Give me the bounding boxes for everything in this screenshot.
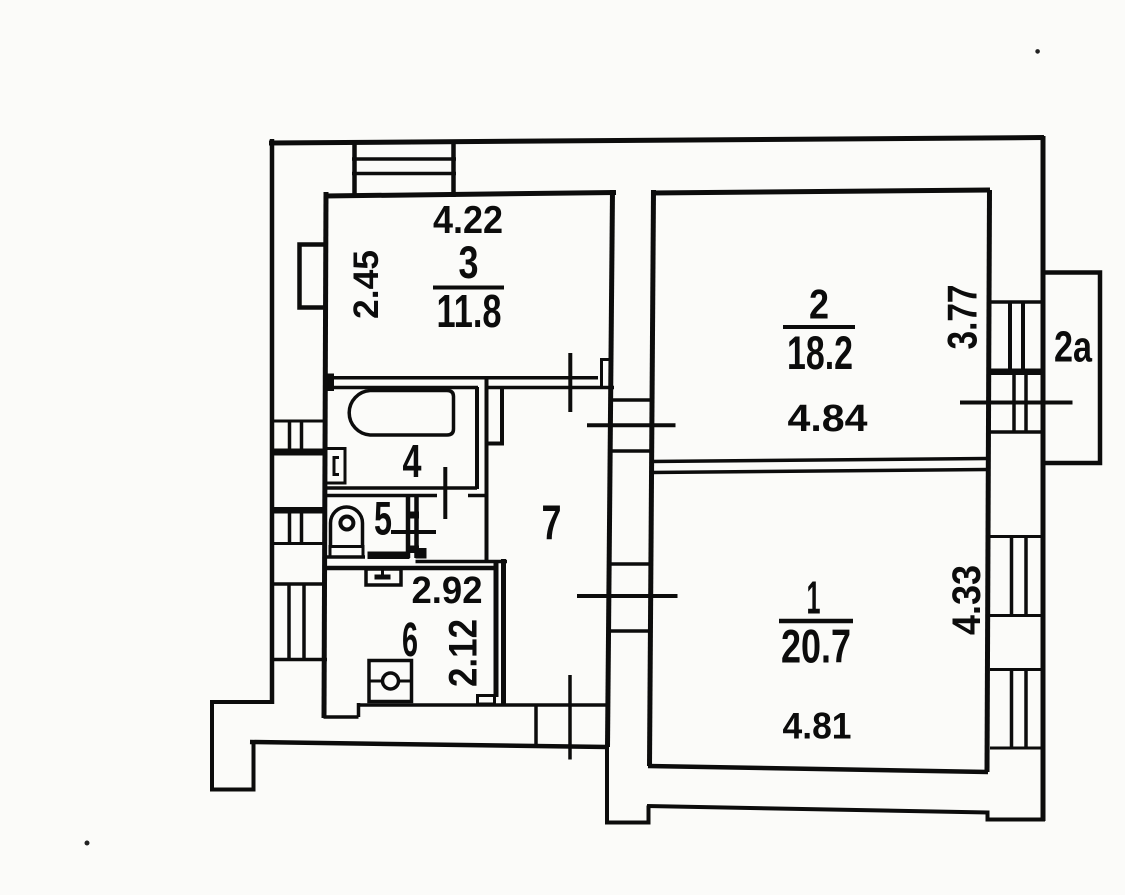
node step box room 6 SE	[478, 696, 495, 705]
window room 1 right wall upper	[990, 536, 1043, 616]
svg-text:4.33: 4.33	[945, 565, 989, 635]
tick hall-room1 door dimension	[577, 594, 678, 598]
wire door stub hall-room2 upper	[610, 398, 654, 402]
wire room 5 top wall with door gap	[324, 494, 487, 498]
wire entrance door divider	[534, 704, 538, 747]
tick hall-room2 door dimension	[587, 423, 676, 427]
wire divider rooms 2-1 upper line	[650, 459, 988, 462]
wire bottom wall lower edge right	[647, 806, 988, 813]
svg-text:2: 2	[809, 281, 829, 328]
wire room 6 top wall right part	[416, 560, 508, 564]
svg-text:2a: 2a	[1054, 323, 1092, 372]
wire door stub hall-room1 lower	[607, 629, 649, 633]
svg-text:11.8: 11.8	[437, 285, 502, 337]
svg-text:4: 4	[403, 435, 422, 487]
svg-text:1: 1	[807, 572, 821, 624]
node room 5 door block upper	[406, 512, 419, 519]
wire bottom wall lower edge left	[250, 742, 607, 747]
shaft box right of room 3	[602, 360, 614, 389]
kitchen sink room 6	[369, 661, 412, 702]
wire room 3 bottom wall upper line	[324, 376, 598, 380]
window stair box above room 3	[352, 141, 456, 197]
wire room 1 floor wall	[648, 766, 988, 772]
svg-text:5: 5	[374, 492, 392, 545]
node wall junction blob room 3 SW	[323, 374, 334, 392]
wire left exterior wall	[270, 139, 275, 704]
wire fraction line room 1	[779, 619, 853, 624]
door leaf box room 6	[366, 569, 401, 585]
svg-text:2.12: 2.12	[442, 619, 486, 687]
wire right exterior wall	[1041, 136, 1046, 821]
wire room 5 right wall	[406, 494, 411, 558]
node corner bar right of threshold	[416, 548, 427, 559]
wire door stub hall-room2 lower	[609, 449, 650, 453]
wire room 3 bottom wall lower line	[324, 386, 614, 390]
tick room 2 window dimension	[960, 401, 1073, 405]
wire bottom-left step outline	[212, 702, 274, 790]
balcony 2a outline	[1043, 273, 1100, 464]
window room 2 right wall	[990, 302, 1043, 432]
window W2 left wall	[270, 507, 327, 544]
svg-text:4.84: 4.84	[788, 398, 868, 440]
wire room 6 right wall east line	[501, 559, 506, 706]
door casing room 4 left	[326, 449, 346, 484]
wire room 5 bottom wall	[324, 555, 365, 559]
window W3 left wall	[270, 584, 327, 660]
node threshold bar below room 5	[368, 552, 410, 560]
wire room 4 right wall	[475, 387, 479, 489]
window W1 left wall	[270, 421, 327, 456]
wire room 6 right wall west line	[494, 560, 499, 697]
wire central wall east line (rooms 2,1 left wall)	[650, 190, 654, 766]
toilet room 5	[330, 507, 363, 557]
node stray dot top right	[1035, 49, 1040, 54]
svg-text:6: 6	[402, 614, 418, 667]
tick entrance door dimension	[568, 675, 572, 760]
node stray dot bottom left	[85, 841, 90, 846]
wire hall west wall upper	[485, 376, 489, 560]
wire room 4 bottom wall	[324, 486, 477, 490]
wire divider rooms 2-1 lower line	[650, 470, 988, 473]
wire central wall west line (room 3 right / hall right)	[608, 190, 613, 747]
svg-text:18.2: 18.2	[787, 326, 853, 379]
wire fraction line room 3	[433, 286, 504, 290]
svg-text:2.45: 2.45	[347, 250, 386, 319]
svg-text:20.7: 20.7	[781, 620, 851, 673]
wire room 2 top wall	[651, 190, 990, 193]
wire interior left wall (rooms 3,4,5,6)	[324, 192, 326, 718]
wire door stub hall-room1 upper	[607, 562, 649, 566]
svg-text:4.81: 4.81	[783, 706, 852, 747]
wire room 3 top wall	[324, 193, 616, 197]
wire room 5 door jamb	[414, 494, 419, 558]
window room 1 right wall lower	[990, 669, 1043, 748]
svg-text:7: 7	[542, 497, 562, 551]
svg-text:3.77: 3.77	[939, 285, 986, 350]
wire room 6 bottom-left wall	[324, 703, 359, 717]
wire bottom-right step	[988, 811, 1046, 820]
svg-text:2.92: 2.92	[412, 570, 483, 612]
svg-text:4.22: 4.22	[433, 199, 503, 242]
wire rooms 2,1 right wall	[987, 190, 990, 772]
bathtub room 4	[349, 391, 453, 436]
tick room 5 door dimension	[391, 530, 436, 534]
wire duct pocket beside hall wall	[485, 387, 502, 444]
wire entrance nib outline	[607, 746, 649, 823]
wire fraction line room 2	[783, 325, 855, 329]
wire bottom wall upper edge	[357, 703, 607, 707]
balcony outline left of room 3	[300, 245, 328, 308]
tick room 3 door dimension	[568, 353, 572, 412]
tick room 4 door dimension	[443, 467, 447, 519]
wire top exterior wall	[269, 138, 1044, 144]
wire room 6 top wall band	[324, 566, 495, 571]
svg-text:3: 3	[459, 237, 479, 288]
node room 5 door block lower	[406, 546, 419, 554]
